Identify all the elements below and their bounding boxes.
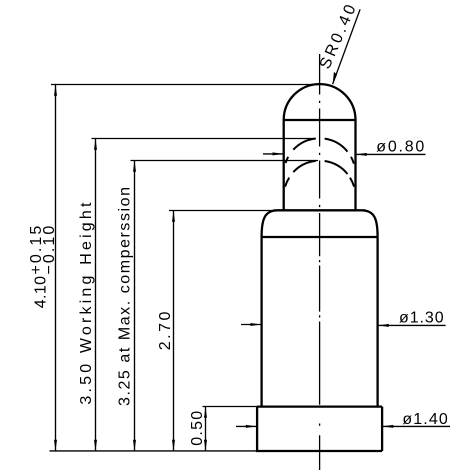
svg-text:ø1.30: ø1.30 [399,310,444,327]
flange right edge [381,407,383,451]
svg-text:ø1.40: ø1.40 [402,411,447,428]
baseline extension line [50,450,258,452]
leader arrow line diameter 0.80 left [263,153,284,155]
extension line at 3.50 working height [92,138,315,140]
leader arrow line diameter 1.30 left [241,324,262,326]
svg-text:ø0.80: ø0.80 [376,138,424,155]
svg-text:−0.10: −0.10 [41,226,58,275]
dimension line 3.25 [134,161,136,452]
flange bottom line [256,450,382,452]
body left edge (diameter 1.30 barrel) [260,237,262,407]
body right edge [376,237,378,407]
arrowhead down at bottom of 3.25 dimension [133,440,136,451]
arrowhead down at bottom of 2.70 dimension [172,440,175,451]
phantom arc: tip at 3.25 max compression, upper-left segment [293,161,316,172]
svg-text:3.25 at Max. comperssion: 3.25 at Max. comperssion [117,187,134,406]
arrowhead down at bottom of 0.50 dimension [204,440,207,451]
phantom arc: tip at 3.25 max compression, left segment near edge [285,178,289,187]
svg-text:0.50: 0.50 [189,411,206,446]
extension line at 2.70 shoulder [169,210,274,212]
body top line at shoulder base [262,236,378,238]
dome base line [284,119,356,121]
dimension line 0.50 [205,407,207,452]
svg-text:2.70: 2.70 [157,312,174,351]
phantom arc: tip at 3.50 working height, upper-left segment [293,139,316,150]
extension line at 3.25 max compression [131,160,319,162]
leader line diameter 1.30 right [378,324,446,326]
arrowhead up at top of 3.50 dimension [94,139,97,150]
arrowhead diameter 0.80 left pointing right [273,152,284,155]
shoulder top line [274,209,366,211]
plunger right edge [354,119,356,210]
arrowhead diameter 0.80 right pointing left [356,153,367,156]
barrel shoulder (rounded taper from plunger to body) [262,210,378,237]
arrowhead diameter 1.30 left pointing right [250,323,261,326]
phantom arc: tip at 3.25 max compression, right segment near edge [350,178,354,187]
svg-text:4.10: 4.10 [33,276,50,308]
centerline (vertical dash-dot axis) [319,54,321,470]
leader line diameter 0.80 right [356,153,426,155]
leader arrow line diameter 1.40 left [236,425,257,427]
arrowhead down at bottom of 4.10 dimension [54,440,57,451]
flange top line [257,405,382,407]
dimension line 2.70 [173,211,175,452]
arrowhead down at bottom of 3.50 dimension [94,440,97,451]
arrowhead up at top of 3.25 dimension [133,161,136,172]
phantom arc: tip at 3.50 working height, right segment near edge [351,157,354,164]
arrowhead up at top of 4.10 dimension [54,85,57,96]
dimension line 3.50 [95,139,97,452]
arrowhead SR0.40 leader pointing at dome [330,72,338,85]
plunger dome (SR0.40 spherical tip) [284,84,356,120]
arrowhead diameter 1.40 left pointing right [246,425,257,428]
extension line at 0.50 flange top [203,406,259,408]
extension line at overall free height 4.10 [51,84,318,86]
leader line SR0.40 [333,9,361,84]
dimension line 4.10 [55,85,57,452]
flange left edge (diameter 1.40) [256,407,258,451]
phantom arc: tip at 3.50 working height, upper-right segment [325,139,348,152]
arrowhead diameter 1.30 right pointing left [378,324,389,327]
arrowhead diameter 1.40 right pointing left [382,425,393,428]
leader line diameter 1.40 right [382,425,450,427]
phantom arc: tip at 3.50 working height, left segment near edge [286,157,289,163]
plunger left edge [283,119,285,210]
phantom arc: tip at 3.25 max compression, upper-right segment [325,161,348,174]
arrowhead up at top of 0.50 dimension [204,407,207,418]
arrowhead up at top of 2.70 dimension [172,211,175,222]
